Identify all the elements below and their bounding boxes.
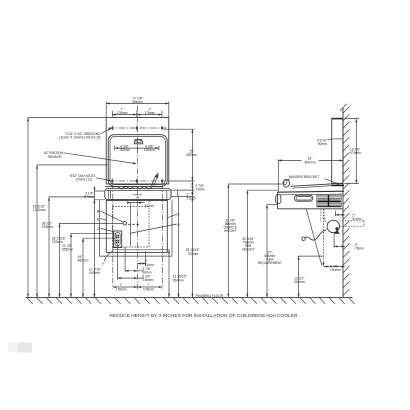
svg-text:HANGER BRACKET: HANGER BRACKET	[289, 175, 320, 179]
stop valve	[334, 229, 340, 234]
dim 17 7/8 overall width	[106, 102, 169, 118]
electrical outlet	[114, 231, 122, 248]
ext verticals	[113, 183, 163, 289]
floor line	[26, 297, 353, 299]
water supply dashed drop	[321, 209, 324, 222]
svg-text:1310mm: 1310mm	[33, 208, 46, 212]
svg-text:454mm: 454mm	[132, 100, 143, 104]
finished floor label	[194, 293, 227, 297]
dim 15 hole rows	[191, 129, 193, 196]
waste stub vertical	[322, 209, 324, 264]
svg-text:90mm: 90mm	[318, 142, 327, 146]
svg-text:HEIGHT: HEIGHT	[224, 229, 236, 233]
in-wall mounting plate	[332, 119, 343, 184]
svg-text:318mm: 318mm	[294, 280, 305, 284]
rough-in outer rect	[99, 201, 172, 257]
rough-in inner rect	[106, 201, 167, 253]
bubbler guard arc	[152, 175, 157, 187]
svg-text:51mm: 51mm	[187, 196, 196, 200]
unit front edge	[276, 192, 278, 209]
svg-text:178mm: 178mm	[117, 111, 128, 115]
wall top break	[340, 104, 347, 111]
dim 51 9/16	[27, 118, 29, 298]
svg-text:SENSOR: SENSOR	[48, 155, 63, 159]
small dim left of band	[94, 191, 105, 200]
hanger bracket bar	[331, 185, 344, 187]
flexible supply squiggle	[302, 237, 305, 240]
dim 6 3/8 left and right of centerline	[115, 146, 159, 151]
svg-text:479mm: 479mm	[350, 151, 361, 155]
access panel pill	[294, 195, 313, 201]
svg-text:D: D	[97, 227, 100, 231]
svg-text:178mm: 178mm	[144, 111, 155, 115]
floor hatching	[27, 298, 354, 304]
line at bottom of dashed opening	[112, 249, 169, 251]
dim 38 1/2 to sensor line	[37, 164, 108, 166]
trap circle	[327, 220, 339, 232]
dim 13 15/16 opening bottom	[168, 250, 170, 297]
dim 2 drain offset	[334, 211, 336, 217]
svg-text:978mm: 978mm	[42, 225, 53, 229]
svg-text:(11mm X 19mm) HOLES (9): (11mm X 19mm) HOLES (9)	[59, 136, 100, 140]
leader diagonal	[306, 209, 322, 266]
svg-text:387mm: 387mm	[186, 153, 197, 157]
water inlet dashed row	[128, 223, 140, 225]
watermark blob bottom-left	[8, 343, 18, 353]
wall hatching	[343, 107, 349, 296]
wall line	[342, 107, 344, 297]
dim 18 7/8 plate height	[345, 119, 360, 184]
dim 3 trap	[333, 234, 335, 248]
top mounting holes	[111, 127, 113, 129]
bubbler front	[134, 140, 143, 144]
dim 33 7/8 orifice height	[228, 183, 282, 185]
svg-text:732mm: 732mm	[187, 252, 198, 256]
dim 21 7/8 to hole B	[60, 222, 124, 224]
svg-text:556mm: 556mm	[62, 247, 73, 251]
svg-text:REDUCE HEIGHT BY 3 INCHES FOR: REDUCE HEIGHT BY 3 INCHES FOR INSTALLATI…	[109, 313, 298, 319]
centerline	[137, 106, 139, 290]
dim 12 1/2	[298, 255, 324, 257]
dim 7 / 7 hole spacing	[112, 111, 162, 117]
dim 30 9/16 rim height	[247, 189, 277, 191]
dim 28 13/16 to bracket bottom	[49, 196, 94, 198]
dim 2	[138, 263, 146, 265]
basin bottom scallops	[105, 187, 163, 189]
waste pipe through wall dashed	[339, 221, 364, 226]
top mounting holes row line	[109, 127, 167, 129]
svg-text:178mm: 178mm	[116, 287, 127, 291]
svg-text:76mm: 76mm	[355, 247, 364, 251]
svg-text:F: F	[102, 262, 105, 266]
extension line top of unit	[28, 117, 106, 119]
bottom mounting holes	[111, 180, 113, 182]
water supply hole B	[123, 221, 127, 225]
unit bottom	[277, 208, 343, 210]
svg-text:REQUIREMENT: REQUIREMENT	[258, 261, 282, 265]
dim 2 right	[191, 190, 193, 193]
front bumper	[276, 195, 281, 204]
svg-text:57mm: 57mm	[84, 195, 93, 199]
svg-text:73mm: 73mm	[195, 187, 204, 191]
dim 7 / 7 bottom	[113, 286, 163, 288]
hanger bracket slope	[291, 183, 344, 186]
dim 2 7/8	[191, 181, 193, 184]
bottom mounting holes row line	[109, 180, 167, 182]
dim 27 ADA	[267, 204, 277, 206]
svg-text:178mm: 178mm	[143, 287, 154, 291]
svg-text:460mm: 460mm	[305, 161, 316, 165]
svg-text:HEIGHT: HEIGHT	[242, 248, 254, 252]
svg-text:51mm: 51mm	[352, 217, 361, 221]
svg-text:162mm: 162mm	[119, 148, 130, 152]
hanger bracket band	[105, 189, 171, 200]
basin flange outer	[108, 135, 167, 187]
ext lines	[164, 129, 195, 196]
svg-text:(7mm) (12): (7mm) (12)	[76, 178, 92, 182]
dim 2 drain offset below band	[127, 202, 145, 204]
dim 28 13/16 right	[178, 197, 180, 297]
dim 3 7/8	[125, 270, 143, 272]
dim 18 wall to front	[277, 159, 279, 191]
dim 19 to outlet	[71, 232, 116, 234]
dim 17 7/16 to outlet lower	[83, 237, 116, 239]
wall mounting back panel	[106, 118, 169, 185]
svg-text:146mm: 146mm	[142, 278, 153, 282]
basin flange inner	[110, 136, 165, 184]
unit top	[277, 191, 344, 192]
extra extension line	[93, 187, 95, 298]
louver grille	[317, 195, 341, 207]
bracket tab right	[171, 190, 178, 196]
dashed wall opening	[112, 207, 149, 248]
svg-text:51mm: 51mm	[145, 204, 154, 208]
bubbler side	[283, 179, 289, 187]
svg-text:162mm: 162mm	[144, 148, 155, 152]
svg-text:160mm: 160mm	[330, 268, 341, 272]
dim 5 3/4	[117, 277, 143, 279]
bolt line tick	[332, 138, 343, 140]
dim 6 7/8	[323, 266, 345, 268]
